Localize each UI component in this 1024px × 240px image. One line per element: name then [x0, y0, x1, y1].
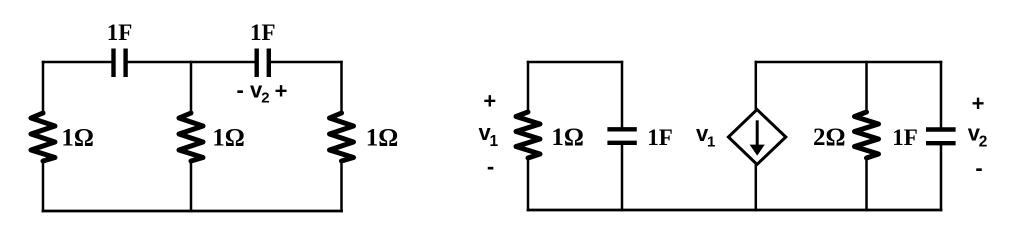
svg-text:1Ω: 1Ω	[212, 125, 245, 152]
wire: left circuit top rail, right segment	[271, 61, 342, 64]
wire: right circuit branch4 upper	[865, 62, 868, 112]
svg-text:1Ω: 1Ω	[61, 125, 94, 152]
wire: right circuit branch5 lower	[940, 145, 943, 211]
wire: left circuit left branch upper	[42, 62, 45, 113]
svg-text:1F: 1F	[892, 125, 918, 150]
wire: right circuit branch5 upper	[940, 62, 943, 128]
wire: right circuit top rail, left section	[528, 61, 622, 64]
dependent current source U1 (diamond, arrow down)	[728, 110, 785, 165]
capacitor C3 1F (right circuit, shunt)	[607, 129, 636, 143]
wire: left circuit left branch lower	[42, 161, 45, 211]
wire: right circuit branch4 lower	[865, 158, 868, 210]
wire: right circuit branch2 upper	[621, 62, 624, 128]
svg-text:v1: v1	[696, 121, 715, 151]
svg-text:1Ω: 1Ω	[551, 124, 584, 151]
wire: left circuit middle branch upper	[190, 62, 193, 113]
capacitor C4 1F (output, shunt)	[926, 130, 956, 144]
resistor R2 1ohm (middle branch)	[179, 113, 203, 161]
svg-text:1F: 1F	[647, 125, 673, 150]
wire: right circuit top rail, right section	[756, 61, 941, 64]
capacitor C1 1F (top-left, series)	[114, 49, 126, 78]
svg-text:1F: 1F	[250, 20, 276, 45]
wire: right circuit branch2 lower	[621, 144, 624, 210]
svg-text:+: +	[483, 89, 496, 114]
resistor R4 1ohm (right circuit)	[516, 112, 540, 158]
wire: right circuit branch3 upper (to source)	[755, 62, 758, 109]
wire: right circuit branch1 lower	[527, 158, 530, 210]
resistor R3 1ohm (right branch)	[330, 113, 354, 161]
wire: right circuit bottom rail	[528, 209, 941, 212]
svg-text:-: -	[487, 154, 494, 179]
svg-text:2Ω: 2Ω	[813, 124, 846, 151]
capacitor C2 1F (top-right, series)	[257, 49, 269, 78]
svg-text:v1: v1	[479, 120, 499, 150]
wire: left circuit middle branch lower	[190, 161, 193, 211]
svg-text:1Ω: 1Ω	[366, 125, 399, 152]
wire: left circuit bottom rail	[43, 210, 342, 213]
wire: right circuit branch1 upper	[527, 62, 530, 112]
svg-text:v2: v2	[968, 121, 988, 151]
wire: left circuit right branch lower	[340, 161, 343, 211]
resistor R5 2ohm	[855, 112, 879, 158]
svg-text:1F: 1F	[107, 20, 133, 45]
wire: right circuit branch3 lower (from source)	[755, 165, 758, 210]
svg-text:- v2 +: - v2 +	[237, 78, 288, 107]
wire: left circuit top rail, middle segment (node between C1 and C2)	[127, 61, 255, 64]
svg-text:-: -	[975, 155, 982, 180]
wire: left circuit top rail, left segment	[43, 61, 112, 64]
resistor R1 1ohm (left branch)	[31, 113, 55, 161]
svg-text:+: +	[972, 91, 985, 116]
wire: left circuit right branch upper	[340, 62, 343, 113]
